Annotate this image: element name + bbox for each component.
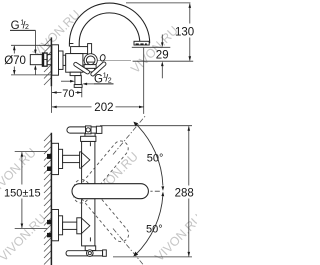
S-union inlet pipe (top view) bbox=[30, 55, 42, 65]
dim 202 right extension (outlet axis) bbox=[143, 48, 145, 114]
svg-text:70: 70 bbox=[62, 88, 74, 100]
pipe to body bbox=[63, 55, 66, 65]
dim 150+-15 extension lines bbox=[15, 151, 47, 153]
top handle hub bbox=[86, 126, 92, 134]
top escutcheon (plan) bbox=[52, 143, 59, 174]
spout outlet aerator bbox=[134, 41, 149, 45]
handle hub bbox=[86, 56, 95, 65]
watermark VIVON.RU tiles bbox=[0, 7, 205, 264]
svg-text:150±15: 150±15 bbox=[4, 187, 41, 199]
svg-text:29: 29 bbox=[156, 49, 169, 61]
bottom valve chevron bbox=[82, 218, 90, 233]
top cross handle bar bbox=[67, 127, 97, 133]
spout inner arc bbox=[79, 13, 140, 47]
dim 202 bbox=[52, 106, 92, 108]
dim 29 arrows bbox=[161, 35, 163, 44]
top valve tick bbox=[89, 142, 91, 146]
top valve chevron bbox=[82, 152, 90, 167]
wall face extension line (serves dim 70 / 202) bbox=[51, 86, 53, 113]
spout axis dash-dot bbox=[150, 190, 152, 192]
top column (valve + neck) bbox=[82, 141, 95, 183]
top escutcheon cap bbox=[59, 149, 63, 168]
dim 130 top extension bbox=[126, 2, 190, 4]
dim 70 right extension bbox=[81, 88, 83, 98]
bottom escutcheon cap bbox=[59, 216, 63, 235]
handle spoke down-left bbox=[73, 62, 90, 75]
handle spoke down-right bbox=[90, 61, 107, 77]
wall hatch (top view) bbox=[44, 39, 51, 85]
top valve boss bbox=[80, 152, 82, 168]
svg-text:50°: 50° bbox=[146, 224, 163, 236]
bottom handle hub bbox=[87, 250, 94, 257]
dim 288 extension lines bbox=[100, 125, 192, 127]
handle skirt ring bbox=[84, 54, 97, 67]
top bonnet rects bbox=[85, 133, 95, 137]
dashed spout rotated +50 bbox=[71, 138, 132, 206]
arrow left to outlet pipe bbox=[87, 83, 95, 85]
escutcheon cap bbox=[59, 51, 64, 69]
wall hatch (bottom view) bbox=[44, 134, 51, 265]
svg-text:130: 130 bbox=[175, 27, 194, 39]
leader arrow down to pipe bbox=[34, 30, 36, 50]
dim 288 line and arrows bbox=[188, 126, 190, 185]
swivel arc lower bbox=[136, 195, 163, 255]
bottom column (valve + neck) bbox=[82, 199, 95, 246]
handle bonnet rects bbox=[84, 65, 96, 69]
label G 1/2 (top left) bbox=[11, 20, 29, 32]
arrow right to outlet pipe bbox=[61, 80, 71, 82]
svg-text:288: 288 bbox=[175, 188, 194, 200]
bottom union pipe bbox=[63, 222, 82, 229]
bottom cross handle bar bbox=[66, 251, 103, 256]
spout leg step tick bbox=[69, 43, 73, 45]
outlet plane extension line bbox=[132, 46, 171, 48]
arrow up to pipe bottom bbox=[34, 69, 36, 75]
bottom escutcheon (plan) bbox=[52, 210, 59, 241]
bottom valve boss bbox=[77, 218, 82, 234]
centerline of body axis bbox=[52, 60, 131, 62]
handle stem (up spoke) bbox=[88, 44, 92, 57]
bottom valve tick bbox=[89, 237, 91, 241]
dashed spout rotated -50 bbox=[71, 177, 132, 245]
dim 150+-15 line and arrows bbox=[21, 152, 23, 184]
dim 130 line and arrows bbox=[189, 4, 191, 24]
label G 1/2 (right of outlet) bbox=[94, 72, 112, 85]
spout mounting collar bbox=[71, 47, 90, 54]
faucet body (top view) bbox=[66, 54, 83, 73]
arc mid arrowheads at axis bbox=[161, 186, 164, 191]
wall face line (bottom view) bbox=[50, 133, 52, 265]
escutcheon flange (top view) bbox=[52, 45, 59, 75]
handle spoke toward viewer (ellipse) bbox=[100, 54, 106, 61]
radial axis line +50 deg bbox=[113, 115, 146, 155]
dim Ø70 extension lines bbox=[11, 44, 52, 46]
lower outlet pipe bbox=[75, 76, 81, 85]
pipe through wall bbox=[47, 54, 52, 56]
lower outlet end flare bbox=[74, 85, 82, 88]
top handle end cap bbox=[96, 126, 102, 133]
cold inlet black section marks bbox=[47, 220, 51, 224]
swivel arc upper bbox=[136, 124, 163, 186]
body axis extension line bbox=[133, 60, 194, 62]
wall face line (top view) bbox=[50, 37, 52, 86]
arc end arrowheads bbox=[133, 122, 138, 127]
spout outer arc bbox=[69, 3, 149, 47]
svg-text:50°: 50° bbox=[147, 152, 164, 164]
bottom bonnet rect bbox=[85, 246, 96, 251]
svg-text:202: 202 bbox=[94, 102, 113, 114]
dim 70 bbox=[52, 92, 62, 94]
dim Ø70 line and arrows bbox=[13, 46, 15, 54]
hot inlet black section marks bbox=[47, 154, 51, 159]
top union pipe bbox=[63, 155, 82, 162]
radial axis line -50 deg bbox=[113, 229, 146, 265]
bottom handle end cap bbox=[103, 250, 107, 256]
spout capsule (plan, solid) bbox=[72, 184, 148, 199]
lower outlet connection bbox=[70, 72, 81, 75]
hex nut (top view) bbox=[42, 53, 47, 66]
svg-text:Ø70: Ø70 bbox=[4, 55, 26, 67]
